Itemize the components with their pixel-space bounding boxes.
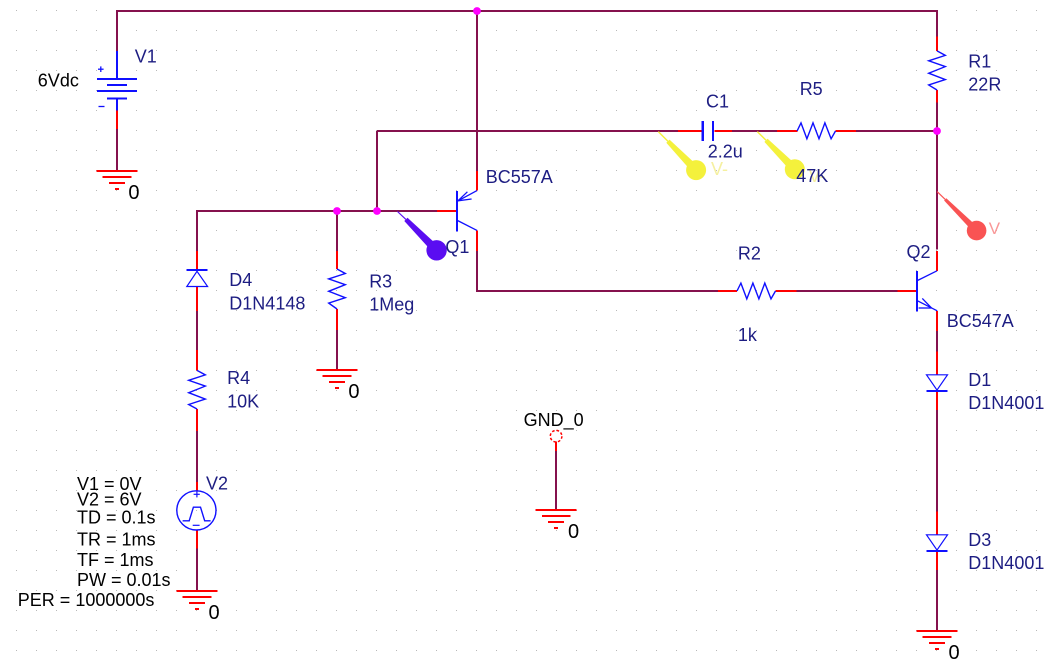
svg-text:R5: R5 bbox=[800, 79, 823, 99]
wire base net horizontal bbox=[197, 210, 437, 212]
probe marker yellow 1 (on C1 net) bbox=[658, 132, 706, 181]
node GND_0 open terminal bbox=[550, 430, 562, 442]
pin R4 bottom bbox=[196, 409, 198, 431]
ground 0 under GND_0 bbox=[536, 510, 577, 528]
svg-text:R3: R3 bbox=[369, 272, 392, 292]
pin V2 plus top bbox=[196, 482, 198, 491]
battery V1 bbox=[97, 51, 137, 111]
svg-text:TR = 1ms: TR = 1ms bbox=[77, 530, 156, 550]
svg-text:1Meg: 1Meg bbox=[369, 295, 414, 315]
pin R1 bottom bbox=[936, 90, 938, 103]
svg-text:V1: V1 bbox=[135, 47, 157, 67]
wire vertical drop from C1 net to base net bbox=[376, 131, 378, 211]
svg-text:BC557A: BC557A bbox=[486, 167, 553, 187]
wire R2 net left segment bbox=[476, 290, 719, 292]
wire top net V1 to R1 bbox=[116, 10, 938, 12]
svg-text:1k: 1k bbox=[738, 325, 758, 345]
pin D3 cathode bbox=[936, 551, 938, 570]
pin Q2 base bbox=[897, 290, 917, 292]
resistor R2 bbox=[737, 283, 776, 299]
pin D4 anode bottom bbox=[196, 287, 198, 311]
wire junction down to Q2 collector bbox=[936, 131, 938, 249]
svg-text:R2: R2 bbox=[738, 244, 761, 264]
pin D4 cathode top bbox=[196, 251, 198, 270]
svg-text:Q1: Q1 bbox=[445, 237, 469, 257]
svg-text:TF = 1ms: TF = 1ms bbox=[77, 550, 154, 570]
svg-text:TD = 0.1s: TD = 0.1s bbox=[77, 508, 156, 528]
pin GND_0 stub bbox=[555, 441, 557, 450]
ground 0 bottom right bbox=[917, 631, 958, 649]
wire D4 to R4 bbox=[196, 311, 198, 351]
svg-text:V: V bbox=[989, 219, 1001, 238]
wire D1 to D3 bbox=[936, 410, 938, 512]
ground 0 under R3 bbox=[317, 370, 358, 388]
transistor Q1 BC557A (PNP) bbox=[457, 191, 477, 232]
svg-text:D1N4001: D1N4001 bbox=[968, 553, 1044, 573]
svg-text:PW = 0.01s: PW = 0.01s bbox=[77, 570, 171, 590]
pin V1 minus bbox=[116, 111, 118, 130]
pin D1 anode bbox=[936, 352, 938, 375]
probe marker yellow 2 (on R5 net) bbox=[757, 132, 805, 180]
capacitor C1 bbox=[703, 121, 713, 141]
pin D3 anode bbox=[936, 512, 938, 535]
wire R4 to V2 bbox=[196, 431, 198, 483]
junction node base net R3 bbox=[333, 207, 341, 215]
resistor R4 bbox=[189, 370, 206, 409]
pin R2 left bbox=[718, 290, 737, 292]
svg-text:BC547A: BC547A bbox=[947, 311, 1014, 331]
svg-text:0: 0 bbox=[209, 602, 220, 624]
pin R3 bottom bbox=[336, 309, 338, 330]
wire C1 net left segment bbox=[377, 130, 679, 132]
junction node at R1 bottom net bbox=[933, 127, 941, 135]
svg-text:47K: 47K bbox=[796, 166, 828, 186]
svg-text:GND_0: GND_0 bbox=[524, 410, 584, 431]
wire R1 top stub bbox=[936, 10, 938, 37]
label V2 pulse parameters bbox=[18, 474, 171, 610]
svg-text:V2 = 6V: V2 = 6V bbox=[77, 490, 142, 510]
wire V2 to ground bbox=[196, 548, 198, 591]
probe marker purple (at Q1) bbox=[398, 212, 447, 261]
pin Q2 collector bbox=[936, 251, 938, 271]
svg-text:V2: V2 bbox=[206, 474, 228, 494]
wire R3 junction down bbox=[336, 210, 338, 251]
probe marker red V (at Q2 collector) bbox=[937, 192, 986, 241]
wire Q1 emitter vertical from top net bbox=[476, 10, 478, 171]
pin R1 top bbox=[936, 37, 938, 51]
svg-text:V-: V- bbox=[711, 159, 728, 179]
svg-text:10K: 10K bbox=[227, 391, 259, 411]
svg-text:D1N4001: D1N4001 bbox=[968, 393, 1044, 413]
PINS (red) bbox=[117, 37, 937, 571]
pin C1 left bbox=[678, 130, 701, 132]
pin D1 cathode bbox=[936, 391, 938, 410]
wire base net down to D4 bbox=[196, 210, 198, 251]
wire GND_0 stub to ground bbox=[555, 450, 557, 510]
pin Q2 emitter bbox=[936, 311, 938, 331]
wire R1 bottom to junction bbox=[936, 102, 938, 131]
resistor R1 bbox=[929, 51, 946, 90]
resistor R3 bbox=[329, 269, 346, 309]
svg-text:0: 0 bbox=[128, 182, 139, 204]
ground 0 under V1 bbox=[97, 171, 138, 189]
svg-text:R1: R1 bbox=[968, 51, 991, 71]
svg-text:22R: 22R bbox=[968, 74, 1001, 94]
pin R2 right bbox=[776, 290, 797, 292]
pin Q1 base bbox=[437, 210, 457, 212]
transistor Q2 BC547A (NPN) bbox=[917, 271, 937, 312]
wire D3 to ground bbox=[936, 570, 938, 631]
svg-text:6Vdc: 6Vdc bbox=[38, 71, 79, 91]
svg-text:Q2: Q2 bbox=[907, 242, 931, 262]
svg-text:D1N4148: D1N4148 bbox=[229, 293, 305, 313]
diode D3 D1N4001 bbox=[927, 535, 948, 551]
pin R5 left bbox=[777, 130, 797, 132]
wire V1 top vertical bbox=[116, 10, 118, 51]
svg-text:0: 0 bbox=[348, 381, 359, 403]
svg-text:R4: R4 bbox=[227, 368, 250, 388]
source V2 (VPULSE) bbox=[177, 491, 216, 530]
pin Q1 emitter bbox=[476, 171, 478, 191]
svg-text:D3: D3 bbox=[968, 530, 991, 550]
resistor R5 bbox=[797, 123, 835, 139]
pin R3 top bbox=[336, 251, 338, 269]
svg-text:D1: D1 bbox=[968, 370, 991, 390]
wire R5 to junction segment bbox=[856, 130, 937, 132]
svg-text:2.2u: 2.2u bbox=[708, 141, 743, 161]
pin C1 right bbox=[714, 130, 732, 132]
svg-text:C1: C1 bbox=[706, 92, 729, 112]
svg-text:0: 0 bbox=[568, 521, 579, 543]
ground 0 under V2 bbox=[177, 591, 218, 609]
wire Q1 collector down bbox=[476, 251, 478, 293]
pin V2 minus bottom bbox=[196, 530, 198, 549]
pin R4 top bbox=[196, 350, 198, 371]
svg-text:D4: D4 bbox=[229, 270, 252, 290]
wire C1 to R5 segment bbox=[732, 130, 777, 132]
pin R5 right bbox=[836, 130, 856, 132]
junction node base net drop bbox=[373, 207, 381, 215]
svg-text:0: 0 bbox=[949, 642, 960, 662]
svg-text:PER = 1000000s: PER = 1000000s bbox=[18, 590, 155, 610]
pin Q1 collector bbox=[476, 230, 478, 251]
junction node at top net bbox=[473, 7, 481, 15]
wire Q2 emitter to D1 bbox=[936, 331, 938, 352]
wire V1 bottom to ground bbox=[116, 128, 118, 171]
wire R3 to ground bbox=[336, 330, 338, 370]
diode D4 D1N4148 bbox=[187, 270, 208, 287]
wire R2 to Q2 base segment bbox=[796, 290, 898, 292]
diode D1 D1N4001 bbox=[927, 375, 948, 391]
